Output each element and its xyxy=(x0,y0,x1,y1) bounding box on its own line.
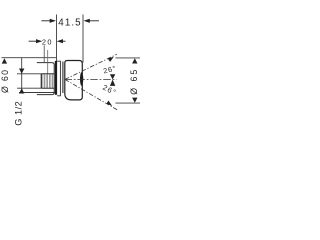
dimension 41.5 left arrow xyxy=(41,19,56,23)
dimension diameter 65 top extension line xyxy=(115,57,140,59)
G 1/2 thread bottom extension line xyxy=(17,87,41,89)
svg-text:G 1/2: G 1/2 xyxy=(14,101,24,126)
dimension diameter 65 top arrow xyxy=(132,58,137,63)
escutcheon flange dark face xyxy=(55,61,57,95)
G 1/2 dimension line xyxy=(21,58,23,93)
G 1/2 thread top extension line xyxy=(17,73,41,75)
body outline xyxy=(65,61,83,100)
dimension diameter 60 top arrow xyxy=(2,58,7,63)
lower 26 degree cone line (dash-dot) xyxy=(65,79,118,110)
svg-text:20: 20 xyxy=(42,37,53,46)
dimension diameter 65 bottom arrow xyxy=(132,98,137,103)
upper angle arrow on cone line xyxy=(108,57,114,62)
svg-text:26°: 26° xyxy=(102,64,117,76)
collar behind wall xyxy=(37,63,54,95)
neck ring line xyxy=(62,62,64,94)
dimension diameter 60 top extension line xyxy=(2,57,57,59)
dimension 41.5 extension line left (wall face) xyxy=(56,15,58,62)
svg-text:Ø 65: Ø 65 xyxy=(129,68,139,95)
lower angle arrow on cone line xyxy=(107,101,113,107)
outlet bulge on right edge xyxy=(80,72,83,86)
thread hatch lines xyxy=(43,74,53,88)
svg-text:Ø 60: Ø 60 xyxy=(0,69,10,93)
dimension diameter 60 bottom extension line xyxy=(19,92,57,94)
collar inner faint line xyxy=(47,50,49,74)
dimension 41.5 extension line right xyxy=(82,15,84,63)
svg-text:26°: 26° xyxy=(101,83,118,97)
threaded nipple G1/2 outline xyxy=(41,74,54,88)
svg-text:41.5: 41.5 xyxy=(58,18,81,29)
G 1/2 top arrow xyxy=(19,69,24,74)
G 1/2 bottom arrow xyxy=(19,88,24,93)
dimension 20 right arrow xyxy=(57,39,66,43)
dimension 20 left arrow xyxy=(29,39,43,43)
dimension 20 extension line xyxy=(43,45,45,62)
dimension diameter 65 bottom extension line xyxy=(116,102,141,104)
upper 26 degree cone line (dash-dot) xyxy=(65,54,117,79)
upper angle arrow on centerline xyxy=(110,74,115,79)
escutcheon flange plate xyxy=(57,61,60,96)
centerline axis (dash-dot) xyxy=(65,78,117,80)
dimension 41.5 right arrow xyxy=(84,19,99,23)
lower angle arrow on centerline xyxy=(110,80,115,86)
